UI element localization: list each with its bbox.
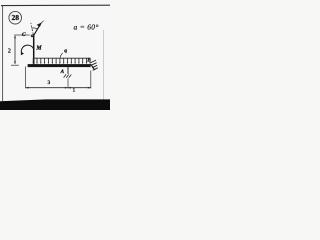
svg-text:M: M [35,45,42,51]
svg-text:α: α [31,34,34,39]
right border line (faint) [103,30,105,100]
svg-text:q: q [64,48,67,54]
svg-text:a = 60°: a = 60° [74,23,99,32]
top border line [1,4,110,6]
angle arc alpha [31,28,37,29]
svg-text:2: 2 [8,49,11,55]
support B hatching [91,60,98,70]
svg-text:B: B [86,58,91,64]
horizontal beam [28,64,91,67]
support A pin line [67,67,69,74]
vertical post member C-D [33,35,35,65]
distributed load arrows [33,58,90,63]
dashed post extension above C [31,23,34,35]
circled problem number 28 [9,11,22,24]
bottom dimension line [26,87,91,89]
svg-text:A: A [60,69,65,75]
left border line [2,6,4,101]
force arrow at C [34,23,41,35]
svg-text:1: 1 [72,87,75,93]
moment arc M [21,45,33,53]
svg-text:28: 28 [12,13,20,22]
distributed load top line [33,57,91,59]
svg-text:3: 3 [47,80,50,86]
dimension 2: vertical line with arrows [14,36,16,64]
support B link [91,64,95,70]
distributed load arrowheads [33,62,91,64]
dimension 2 extension lines [14,34,30,36]
extension lines for 3 and 1 [25,67,27,89]
dimension arrows [26,87,29,89]
support A hatching [64,74,72,78]
bottom black band [0,99,110,110]
